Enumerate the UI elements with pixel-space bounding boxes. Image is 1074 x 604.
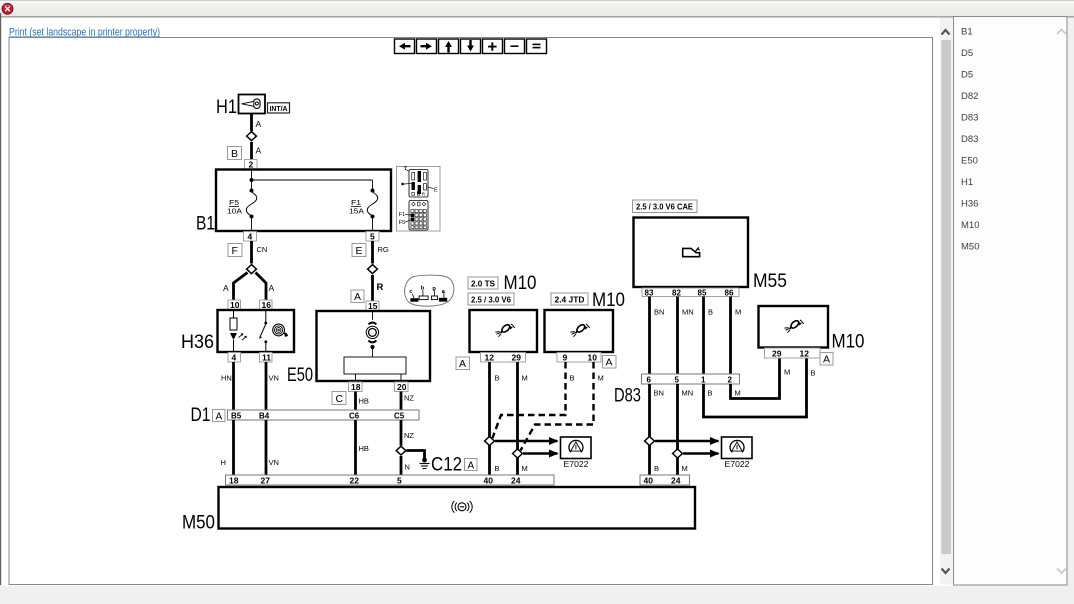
main scrollbar up arrow bbox=[942, 30, 950, 35]
bottom strip M50 right bbox=[640, 475, 690, 486]
svg-text:M10: M10 bbox=[592, 290, 625, 311]
svg-text:A: A bbox=[256, 146, 262, 156]
svg-text:86: 86 bbox=[725, 289, 734, 298]
svg-text:20: 20 bbox=[397, 382, 407, 392]
svg-text:16: 16 bbox=[262, 300, 272, 310]
engine ECU M55 bbox=[634, 218, 788, 293]
svg-text:A: A bbox=[354, 291, 361, 303]
svg-text:5: 5 bbox=[675, 376, 680, 385]
pin 10 bbox=[228, 300, 241, 310]
svg-text:VN: VN bbox=[269, 458, 279, 467]
M10 left pin strip bbox=[481, 353, 526, 363]
svg-text:VN: VN bbox=[269, 374, 279, 383]
svg-text:M: M bbox=[735, 389, 741, 398]
injector icon bbox=[570, 323, 590, 336]
connector label A bbox=[603, 356, 617, 369]
splice diamond B bbox=[485, 437, 495, 446]
svg-text:F1: F1 bbox=[399, 212, 405, 218]
svg-text:D82: D82 bbox=[961, 91, 978, 102]
junction dots bbox=[250, 178, 375, 219]
fuse F1 bbox=[367, 192, 378, 216]
svg-text:M50: M50 bbox=[961, 242, 979, 253]
svg-text:A: A bbox=[256, 119, 262, 129]
svg-text:D5: D5 bbox=[961, 48, 973, 59]
splice diamond C5 bbox=[396, 446, 406, 455]
title bar bbox=[0, 0, 1074, 17]
pin 4 bbox=[244, 232, 257, 242]
svg-text:29: 29 bbox=[512, 353, 522, 363]
svg-text:M55: M55 bbox=[753, 271, 787, 292]
wire H1 to splice bbox=[250, 114, 253, 132]
wire D1/B5 to M50 pin18 bbox=[232, 420, 235, 475]
H36 lamp branch bbox=[230, 310, 247, 352]
D1 connector label bbox=[191, 405, 226, 426]
svg-text:40: 40 bbox=[644, 476, 654, 486]
svg-text:A: A bbox=[269, 283, 275, 293]
svg-text:M: M bbox=[682, 464, 688, 473]
svg-text:C5: C5 bbox=[394, 412, 405, 421]
arrow splice M to E7022 bbox=[523, 452, 558, 454]
panel list bbox=[961, 27, 979, 253]
wire B1 pin5 splice to E50 bbox=[371, 275, 374, 301]
M10 right pin strip bbox=[765, 348, 821, 359]
warning lamp E7022 (right) bbox=[722, 437, 753, 469]
svg-text:5: 5 bbox=[370, 232, 375, 242]
pin 5 bbox=[366, 232, 379, 242]
svg-text:C6: C6 bbox=[349, 412, 360, 421]
svg-text:18: 18 bbox=[229, 476, 239, 486]
svg-text:B: B bbox=[495, 464, 500, 473]
wire splice to ground bbox=[406, 451, 424, 460]
E50 internals bbox=[344, 311, 406, 381]
wire splice to B1 pin 2 bbox=[250, 142, 253, 160]
H36 horn icon bbox=[273, 324, 288, 336]
svg-text:D1: D1 bbox=[191, 405, 211, 426]
fuse F5 value bbox=[227, 198, 242, 216]
svg-text:10A: 10A bbox=[227, 207, 242, 216]
M10 box (JTD) bbox=[545, 310, 614, 352]
svg-text:H1: H1 bbox=[961, 177, 973, 188]
ABS icon bbox=[452, 501, 472, 513]
instrument cluster bubble bbox=[405, 275, 454, 306]
svg-text:MN: MN bbox=[682, 308, 694, 317]
wire M55/82 to D83 bbox=[676, 297, 679, 375]
svg-text:10: 10 bbox=[588, 353, 598, 363]
svg-text:H1: H1 bbox=[216, 97, 237, 118]
svg-text:B: B bbox=[570, 374, 575, 383]
svg-text:1: 1 bbox=[701, 376, 706, 385]
diagram canvas border bbox=[9, 38, 933, 585]
svg-text:C12: C12 bbox=[431, 455, 462, 476]
injector icon bbox=[495, 323, 514, 336]
svg-text:F5: F5 bbox=[399, 220, 405, 226]
svg-text:B: B bbox=[708, 389, 713, 398]
svg-text:N: N bbox=[405, 463, 410, 472]
wire M55/86 to D83 bbox=[729, 297, 732, 375]
wire D1/C5 to splice bbox=[400, 420, 403, 446]
svg-text:40: 40 bbox=[484, 476, 494, 486]
svg-text:6: 6 bbox=[647, 376, 652, 385]
svg-text:29: 29 bbox=[772, 349, 782, 359]
connector label A (E50) bbox=[351, 290, 364, 303]
wire splice to H36 pins bbox=[234, 273, 267, 301]
svg-text:A: A bbox=[823, 354, 830, 366]
svg-text:12: 12 bbox=[485, 353, 495, 363]
ABS ECU M50 bbox=[182, 487, 695, 534]
toolbar buttons bbox=[395, 39, 547, 54]
connector label E bbox=[352, 244, 366, 258]
variant label 2.0 TS bbox=[468, 277, 498, 289]
dashed wire M10/9 to splice B bbox=[493, 362, 566, 438]
horn E50 bbox=[287, 311, 430, 386]
svg-text:27: 27 bbox=[261, 476, 271, 486]
H36 switch branch bbox=[259, 310, 267, 352]
splice diamond right bbox=[368, 265, 378, 274]
svg-text:INT/A: INT/A bbox=[270, 106, 288, 113]
svg-text:A: A bbox=[216, 412, 223, 423]
svg-text:B1: B1 bbox=[196, 214, 215, 235]
svg-text:82: 82 bbox=[672, 289, 681, 298]
svg-text:2: 2 bbox=[728, 376, 733, 385]
splice diamond MN bbox=[673, 449, 683, 458]
svg-text:E7022: E7022 bbox=[564, 459, 589, 469]
svg-text:B: B bbox=[654, 464, 659, 473]
wire D83/1 to M10 pin12 bbox=[704, 358, 807, 417]
bottom strip M50 left bbox=[226, 475, 555, 486]
warning lamp E7022 (left) bbox=[561, 437, 592, 469]
svg-text:D5: D5 bbox=[961, 70, 973, 81]
svg-text:E7022: E7022 bbox=[725, 459, 750, 469]
svg-text:E: E bbox=[356, 245, 363, 257]
svg-text:D83: D83 bbox=[614, 386, 641, 407]
svg-text:15A: 15A bbox=[349, 207, 364, 216]
close button icon bbox=[2, 3, 13, 14]
fuse box B1 bbox=[196, 170, 391, 235]
panel scroll arrows (disabled) bbox=[1057, 30, 1066, 35]
main scrollbar thumb bbox=[942, 40, 952, 554]
D83 connector strip bbox=[642, 374, 740, 385]
svg-text:B: B bbox=[811, 369, 816, 378]
svg-text:MN: MN bbox=[682, 389, 694, 398]
svg-text:B: B bbox=[708, 308, 713, 317]
svg-text:B5: B5 bbox=[231, 412, 242, 421]
dashed wire M10/10 to splice M bbox=[521, 362, 594, 451]
fuse F1 value bbox=[349, 198, 364, 216]
main scrollbar track bbox=[940, 18, 953, 585]
label INT/A bbox=[268, 103, 290, 113]
wire M10-29 down bbox=[516, 362, 519, 475]
wire M55/85 to D83 bbox=[702, 297, 705, 375]
svg-text:B: B bbox=[495, 374, 500, 383]
pin 16 bbox=[260, 300, 273, 310]
main scrollbar down arrow bbox=[942, 569, 950, 574]
svg-text:9: 9 bbox=[563, 353, 568, 363]
svg-text:H: H bbox=[221, 458, 226, 467]
wire splice to M50 pin5 bbox=[400, 456, 403, 475]
M10 box (right) bbox=[759, 306, 829, 348]
svg-text:M: M bbox=[598, 374, 604, 383]
wire D83/6 down bbox=[648, 384, 651, 475]
splice diamond BN bbox=[645, 437, 655, 446]
wire D1/B4 to M50 pin27 bbox=[265, 420, 268, 475]
svg-text:4: 4 bbox=[248, 232, 253, 242]
pin 2 bbox=[245, 160, 258, 170]
svg-text:18: 18 bbox=[351, 382, 361, 392]
svg-text:NZ: NZ bbox=[404, 431, 414, 440]
ignition switch H1 bbox=[216, 95, 265, 119]
svg-text:2.0 TS: 2.0 TS bbox=[471, 280, 496, 289]
svg-text:M: M bbox=[522, 464, 528, 473]
M55 pin strip bbox=[642, 288, 739, 298]
svg-text:CN: CN bbox=[257, 245, 268, 254]
arrow splice to E7022 right bbox=[683, 452, 719, 454]
wire D83/2 to M10 pin29 bbox=[731, 358, 780, 399]
connector label A bbox=[456, 357, 470, 370]
svg-text:D83: D83 bbox=[961, 113, 978, 124]
svg-text:B1: B1 bbox=[961, 27, 973, 38]
svg-text:M10: M10 bbox=[504, 273, 537, 294]
svg-text:24: 24 bbox=[511, 476, 521, 486]
right panel bbox=[954, 17, 1068, 586]
wire M10-12 down bbox=[488, 362, 491, 475]
ground C12 bbox=[420, 458, 430, 469]
pin 18 bbox=[349, 382, 363, 392]
arrow splice to E7022 right bbox=[655, 440, 719, 442]
svg-text:22: 22 bbox=[350, 476, 360, 486]
svg-text:A: A bbox=[223, 283, 229, 293]
pin 15 bbox=[366, 301, 379, 311]
svg-text:24: 24 bbox=[671, 476, 681, 486]
svg-text:C: C bbox=[336, 393, 344, 405]
svg-text:2: 2 bbox=[249, 160, 254, 170]
variant label 2.5 / 3.0 V6 bbox=[468, 293, 514, 305]
wire D1/C6 to M50 pin22 bbox=[354, 420, 357, 475]
svg-text:2.5 / 3.0 V6: 2.5 / 3.0 V6 bbox=[471, 296, 512, 305]
connector label A bbox=[820, 353, 833, 366]
pin 20 bbox=[395, 382, 409, 392]
svg-text:M10: M10 bbox=[961, 220, 979, 231]
arrow splice B to E7022 bbox=[495, 440, 558, 442]
svg-text:B4: B4 bbox=[259, 412, 270, 421]
svg-text:RG: RG bbox=[378, 245, 389, 254]
svg-text:A: A bbox=[606, 357, 613, 369]
svg-text:H36: H36 bbox=[181, 332, 214, 353]
svg-text:NZ: NZ bbox=[404, 394, 414, 403]
svg-text:HB: HB bbox=[359, 444, 369, 453]
svg-text:M: M bbox=[522, 374, 528, 383]
svg-text:M: M bbox=[735, 308, 741, 317]
B1 fusebox inset bbox=[397, 167, 441, 232]
svg-text:2.4 JTD: 2.4 JTD bbox=[555, 296, 585, 305]
D1 connector strip bbox=[228, 410, 420, 421]
svg-text:BN: BN bbox=[654, 389, 664, 398]
injector icon bbox=[784, 319, 804, 332]
wire B1 pin5 down bbox=[371, 241, 374, 264]
svg-text:15: 15 bbox=[368, 301, 378, 311]
svg-text:85: 85 bbox=[698, 289, 707, 298]
svg-text:12: 12 bbox=[800, 349, 810, 359]
wire B1 pin4 down bbox=[250, 241, 253, 264]
svg-text:M: M bbox=[784, 368, 790, 377]
svg-text:R: R bbox=[377, 282, 384, 293]
pin 4 of H36 bbox=[228, 353, 241, 363]
wire E50 pin18 to D1 bbox=[354, 392, 357, 411]
pin 11 of H36 bbox=[260, 353, 273, 363]
svg-text:HN: HN bbox=[221, 374, 232, 383]
horn button H36 bbox=[181, 310, 294, 353]
splice diamond M bbox=[513, 449, 523, 458]
svg-text:D83: D83 bbox=[961, 134, 978, 145]
svg-text:11: 11 bbox=[262, 353, 271, 363]
svg-text:4: 4 bbox=[232, 353, 237, 363]
svg-text:F: F bbox=[232, 245, 238, 257]
window left edge bbox=[0, 13, 2, 585]
svg-text:HB: HB bbox=[359, 397, 369, 406]
connector label F bbox=[228, 244, 242, 258]
svg-text:M10: M10 bbox=[832, 332, 865, 353]
M10 JTD pin strip bbox=[557, 353, 601, 363]
wire H36 pin4 to D1 bbox=[232, 362, 235, 410]
connector label C bbox=[332, 392, 346, 406]
svg-text:E50: E50 bbox=[961, 156, 978, 167]
svg-text:A: A bbox=[468, 461, 475, 472]
svg-text:2.5 / 3.0 V6 CAE: 2.5 / 3.0 V6 CAE bbox=[636, 203, 694, 212]
svg-text:E: E bbox=[434, 187, 438, 193]
variant label 2.5 / 3.0 V6 CAE bbox=[633, 200, 698, 213]
svg-text:10: 10 bbox=[230, 300, 240, 310]
svg-text:5: 5 bbox=[397, 476, 402, 486]
svg-text:H36: H36 bbox=[961, 199, 978, 210]
fuse F5 bbox=[246, 192, 257, 216]
bonnet icon bbox=[683, 248, 700, 256]
wire H36 pin11 to D1 bbox=[265, 362, 268, 410]
wire M55/83 to D83 bbox=[648, 297, 651, 375]
wire E50 pin20 to D1 bbox=[400, 392, 403, 411]
svg-text:BN: BN bbox=[654, 308, 664, 317]
splice diamond left bbox=[247, 265, 257, 274]
M10 box (left) bbox=[470, 310, 538, 352]
B1 internal wiring bbox=[252, 169, 373, 231]
svg-text:E50: E50 bbox=[287, 365, 313, 386]
svg-text:83: 83 bbox=[645, 289, 654, 298]
svg-text:B: B bbox=[231, 148, 238, 160]
wire D83/5 down bbox=[676, 384, 679, 475]
svg-text:A: A bbox=[459, 358, 466, 370]
ground label C12 bbox=[431, 455, 477, 476]
splice diamond bbox=[247, 132, 257, 141]
connector label B bbox=[228, 147, 242, 161]
svg-text:M50: M50 bbox=[182, 513, 215, 534]
variant label 2.4 JTD bbox=[551, 293, 588, 305]
